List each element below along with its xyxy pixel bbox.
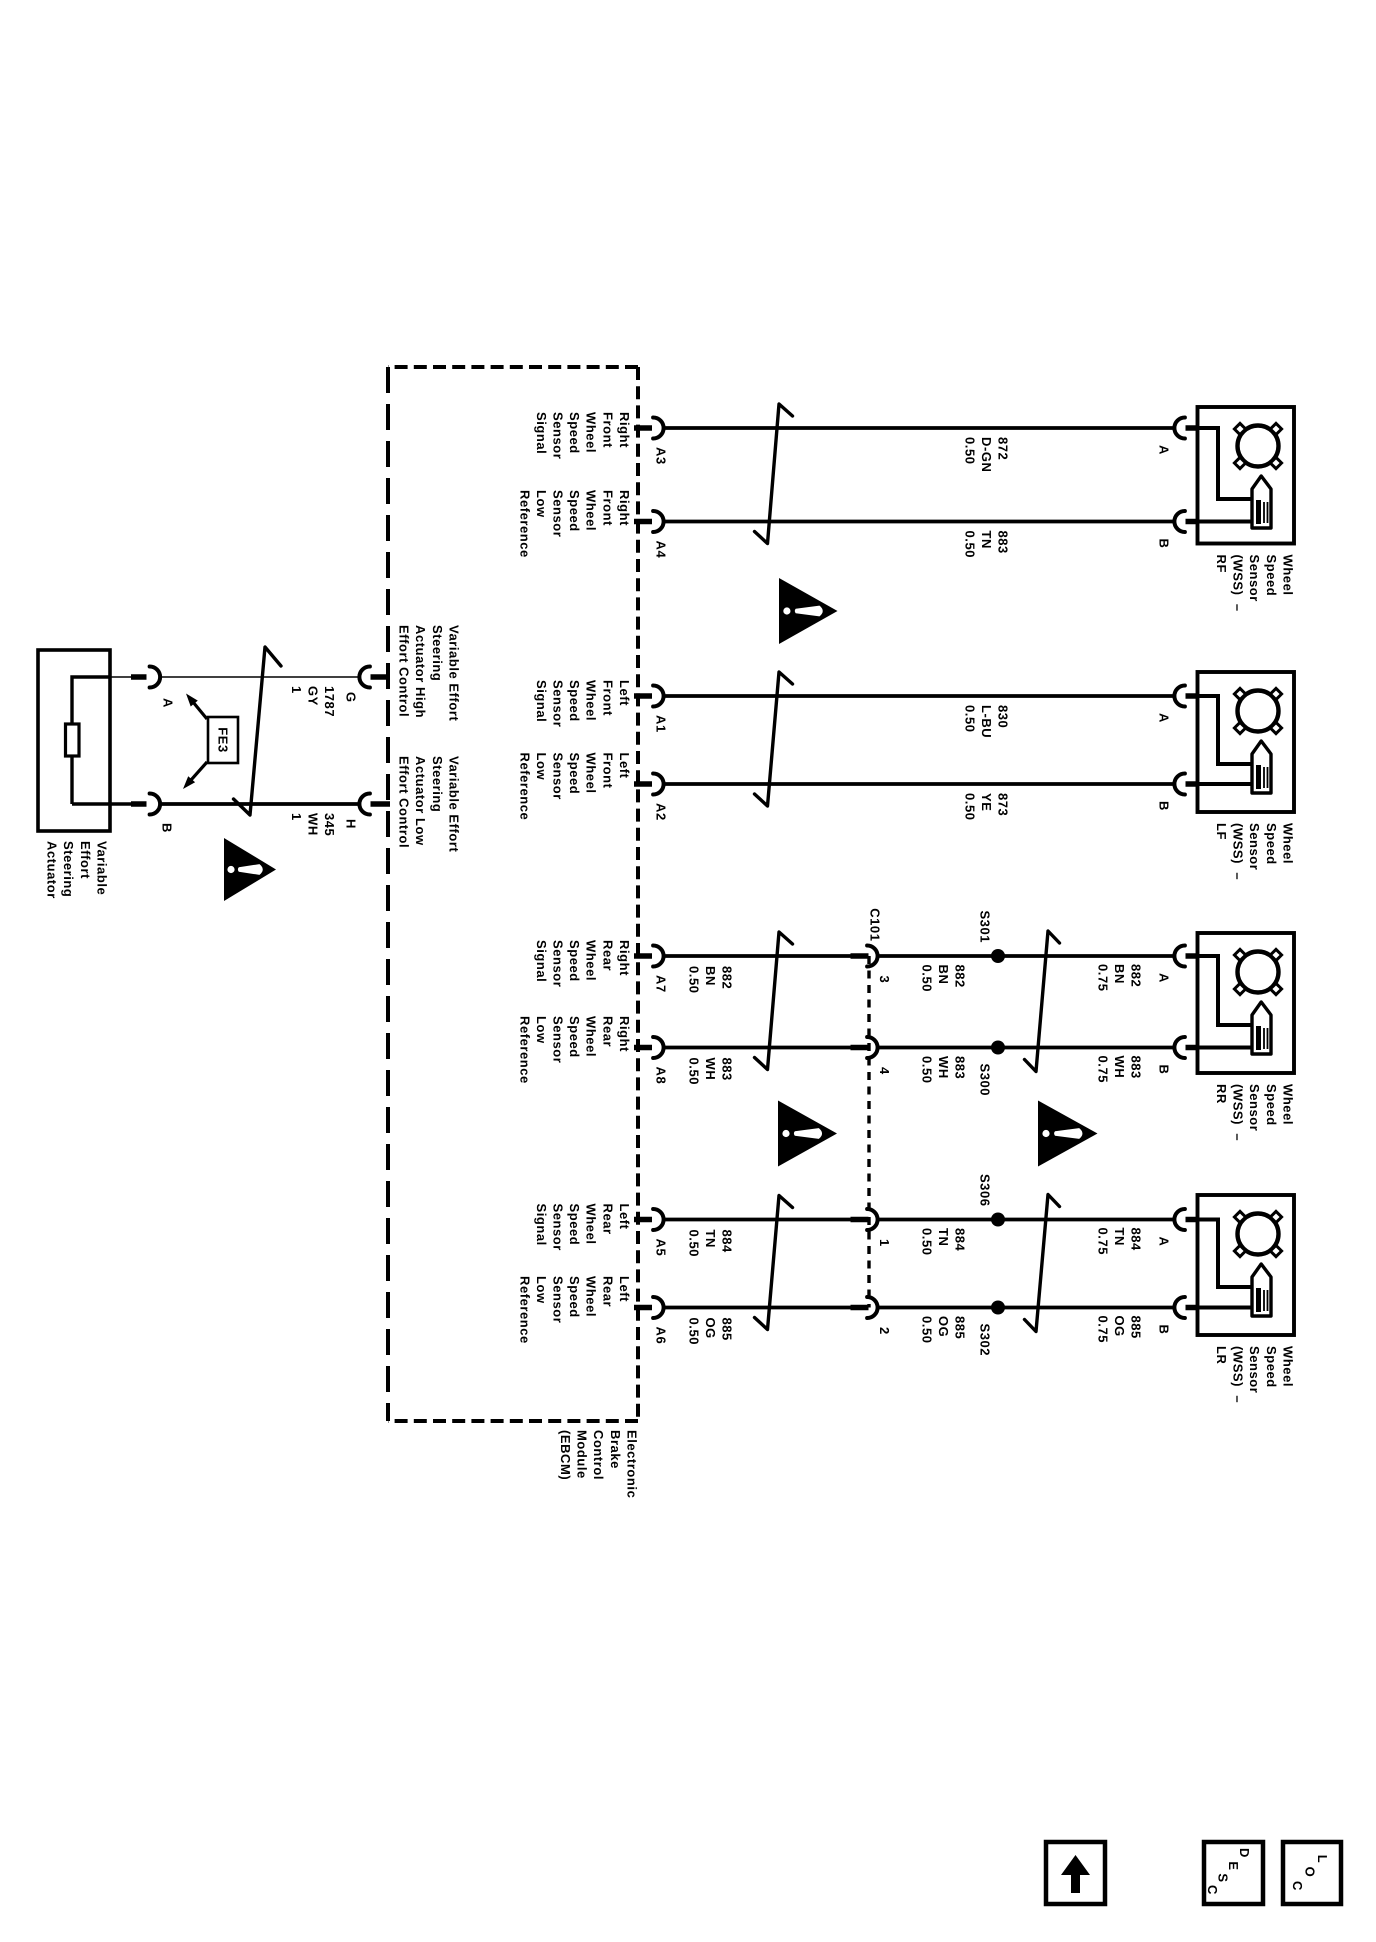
svg-text:Actuator High: Actuator High <box>413 625 428 718</box>
svg-text:RF: RF <box>1214 555 1229 573</box>
svg-text:0.75: 0.75 <box>1095 1056 1110 1084</box>
svg-text:Sensor: Sensor <box>551 490 566 537</box>
svg-text:Steering: Steering <box>61 841 76 897</box>
svg-text:Front: Front <box>600 680 615 716</box>
svg-text:1: 1 <box>289 813 304 821</box>
sensor pin A (LF) <box>1174 686 1199 707</box>
svg-text:Sensor: Sensor <box>1247 823 1262 870</box>
svg-text:A1: A1 <box>654 715 669 733</box>
svg-text:0.50: 0.50 <box>919 1228 934 1256</box>
svg-text:Wheel: Wheel <box>584 1204 599 1245</box>
svg-text:FE3: FE3 <box>216 727 231 753</box>
svg-text:A4: A4 <box>654 541 669 559</box>
svg-text:GY: GY <box>305 686 320 706</box>
svg-text:A: A <box>1157 973 1172 983</box>
wire label 345 WH 1 <box>289 813 337 836</box>
connector C101 terminal pin 3 <box>851 946 878 967</box>
svg-text:0.75: 0.75 <box>1095 964 1110 992</box>
svg-text:Low: Low <box>534 1016 549 1044</box>
harness crossing symbol (actuator pair) <box>234 647 282 815</box>
svg-text:872: 872 <box>995 437 1010 460</box>
svg-text:A8: A8 <box>654 1067 669 1085</box>
svg-text:S302: S302 <box>978 1324 993 1357</box>
svg-text:0.50: 0.50 <box>962 793 977 821</box>
RF sensor probe icon <box>1252 476 1271 528</box>
wire label 883 TN 0.50 <box>962 531 1010 559</box>
svg-text:873: 873 <box>995 793 1010 816</box>
svg-text:882: 882 <box>1128 964 1143 987</box>
EBCM pin A3 <box>634 418 664 439</box>
label Wheel Speed Sensor (WSS) LF <box>1214 823 1295 880</box>
svg-text:Sensor: Sensor <box>551 1276 566 1323</box>
harness crossing symbol (RF pair) <box>755 404 793 544</box>
wire 884 TN lower segment (LR) <box>665 1218 852 1222</box>
svg-text:YE: YE <box>979 793 994 811</box>
svg-text:Reference: Reference <box>517 1276 532 1344</box>
svg-text:0.50: 0.50 <box>962 705 977 733</box>
svg-text:Sensor: Sensor <box>551 412 566 459</box>
svg-text:Rear: Rear <box>600 1276 615 1307</box>
wire 883 WH lower segment (RR) <box>665 1046 852 1050</box>
label Wheel Speed Sensor (WSS) LR <box>1214 1346 1295 1403</box>
wire 882 BN upper segment (RR) <box>879 954 1174 958</box>
svg-text:Signal: Signal <box>534 1204 549 1246</box>
EBCM module dashed outline <box>388 367 638 1421</box>
wire label 883 WH 0.50 (middle) <box>919 1056 967 1084</box>
svg-text:B: B <box>160 823 175 833</box>
svg-text:D: D <box>1237 1848 1252 1858</box>
svg-text:Sensor: Sensor <box>551 753 566 800</box>
variable effort steering actuator box <box>38 650 110 831</box>
wire 882 BN lower segment (RR) <box>665 954 852 958</box>
svg-text:Wheel: Wheel <box>584 940 599 981</box>
LF internal wiring <box>1199 696 1252 764</box>
svg-text:883: 883 <box>952 1056 967 1079</box>
svg-text:830: 830 <box>995 705 1010 728</box>
label Wheel Speed Sensor (WSS) RF <box>1214 555 1295 612</box>
svg-text:A2: A2 <box>654 803 669 821</box>
svg-text:Speed: Speed <box>567 490 582 532</box>
svg-text:H: H <box>344 819 359 829</box>
svg-text:S301: S301 <box>978 910 993 943</box>
svg-text:Speed: Speed <box>567 1276 582 1318</box>
svg-text:Speed: Speed <box>567 1016 582 1058</box>
svg-text:A5: A5 <box>654 1239 669 1257</box>
svg-text:A3: A3 <box>654 447 669 465</box>
svg-text:Speed: Speed <box>567 680 582 722</box>
svg-text:WH: WH <box>936 1056 951 1079</box>
connector C101 dashed line <box>867 956 870 1308</box>
svg-text:Variable: Variable <box>94 841 109 895</box>
svg-text:Front: Front <box>600 753 615 789</box>
svg-text:Sensor: Sensor <box>551 680 566 727</box>
svg-text:0.50: 0.50 <box>962 531 977 559</box>
LOC icon <box>1283 1842 1341 1904</box>
wire 883 TN (low RF) <box>665 520 1174 524</box>
wire 885 OG lower segment (LR) <box>665 1306 852 1310</box>
actuator name label <box>45 841 110 899</box>
wire label 873 YE 0.50 <box>962 793 1010 821</box>
svg-text:(WSS) –: (WSS) – <box>1231 1084 1246 1141</box>
svg-text:OG: OG <box>703 1318 718 1339</box>
wire 1787 GY (G) <box>162 676 360 678</box>
actuator internal wiring <box>72 677 110 804</box>
svg-text:885: 885 <box>952 1316 967 1339</box>
wire 830 L-BU (sig LF) <box>665 694 1174 698</box>
EBCM module name label <box>558 1430 639 1498</box>
svg-text:0.50: 0.50 <box>919 1056 934 1084</box>
svg-text:BN: BN <box>703 966 718 986</box>
EBCM pin A8 <box>634 1037 664 1058</box>
svg-text:885: 885 <box>719 1318 734 1341</box>
wire 883 WH upper segment (RR) <box>879 1046 1174 1050</box>
harness crossing symbol (LR pair) <box>755 1196 793 1330</box>
sensor pin B (RF) <box>1174 511 1199 532</box>
svg-text:Brake: Brake <box>608 1430 623 1469</box>
svg-text:TN: TN <box>979 531 994 549</box>
svg-text:345: 345 <box>322 813 337 836</box>
svg-text:Wheel: Wheel <box>1280 1084 1295 1125</box>
svg-text:WH: WH <box>703 1058 718 1081</box>
warning triangle note (actuator) <box>224 838 276 901</box>
EBCM function text A4 <box>517 490 632 558</box>
svg-text:3: 3 <box>877 976 892 984</box>
svg-text:Rear: Rear <box>600 940 615 971</box>
svg-text:Signal: Signal <box>534 940 549 982</box>
sensor pin B (LR) <box>1174 1297 1199 1318</box>
svg-text:B: B <box>1157 801 1172 811</box>
warning triangle note (rear sensors lower) <box>778 1101 837 1167</box>
svg-text:Speed: Speed <box>1264 1084 1279 1126</box>
wire label 884 TN 0.50 (middle) <box>919 1228 967 1256</box>
EBCM function text A2 <box>517 753 632 821</box>
svg-text:Sensor: Sensor <box>1247 1346 1262 1393</box>
EBCM function text G <box>397 625 462 722</box>
svg-text:0.50: 0.50 <box>686 1058 701 1086</box>
svg-text:Wheel: Wheel <box>1280 1346 1295 1387</box>
svg-text:0.50: 0.50 <box>919 965 934 993</box>
EBCM function text A8 <box>517 1016 632 1084</box>
EBCM pin G <box>359 667 390 688</box>
svg-text:Steering: Steering <box>430 625 445 681</box>
harness crossing symbol (LR pair upper) <box>1025 1195 1060 1332</box>
svg-text:0.75: 0.75 <box>1095 1316 1110 1344</box>
wire 884 TN upper segment (LR) <box>879 1218 1174 1222</box>
svg-text:LR: LR <box>1214 1346 1229 1364</box>
svg-text:(WSS) –: (WSS) – <box>1231 823 1246 880</box>
svg-text:D-GN: D-GN <box>979 437 994 472</box>
EBCM pin A2 <box>634 774 664 795</box>
svg-text:883: 883 <box>719 1058 734 1081</box>
svg-text:Speed: Speed <box>1264 1346 1279 1388</box>
harness crossing symbol (RR pair upper) <box>1025 931 1060 1072</box>
sensor pin A (RF) <box>1174 418 1199 439</box>
svg-text:0.50: 0.50 <box>686 1230 701 1258</box>
svg-text:883: 883 <box>995 531 1010 554</box>
LR wheel hub icon <box>1234 1211 1281 1256</box>
EBCM function text A7 <box>534 940 632 987</box>
actuator pin terminal at wire H <box>110 794 160 815</box>
svg-text:LF: LF <box>1214 823 1229 840</box>
svg-text:(WSS) –: (WSS) – <box>1231 1346 1246 1403</box>
svg-text:Electronic: Electronic <box>624 1430 639 1498</box>
warning triangle note (front sensors) <box>779 578 838 644</box>
svg-text:Right: Right <box>617 940 632 976</box>
wire label 883 WH 0.75 (upper) <box>1095 1056 1143 1084</box>
svg-text:A: A <box>1157 445 1172 455</box>
svg-text:RR: RR <box>1214 1084 1229 1104</box>
svg-text:Actuator Low: Actuator Low <box>413 756 428 846</box>
svg-text:Signal: Signal <box>534 412 549 454</box>
svg-text:Actuator: Actuator <box>45 841 60 899</box>
svg-text:TN: TN <box>703 1230 718 1248</box>
svg-text:TN: TN <box>1112 1228 1127 1246</box>
svg-text:A: A <box>161 698 176 708</box>
label Wheel Speed Sensor (WSS) RR <box>1214 1084 1295 1141</box>
wheel speed sensor LR box <box>1198 1195 1295 1335</box>
wire 345 WH (H) <box>162 802 360 806</box>
svg-text:0.75: 0.75 <box>1095 1228 1110 1256</box>
svg-text:WH: WH <box>305 813 320 836</box>
svg-text:Speed: Speed <box>567 753 582 795</box>
svg-text:Low: Low <box>534 490 549 518</box>
sensor pin A (LR) <box>1174 1209 1199 1230</box>
svg-text:Speed: Speed <box>1264 823 1279 865</box>
svg-text:A: A <box>1157 713 1172 723</box>
svg-text:Effort Control: Effort Control <box>397 625 412 717</box>
svg-text:0.50: 0.50 <box>962 437 977 465</box>
wire label 884 TN 0.50 (lower) <box>686 1230 734 1258</box>
splice S302 <box>991 1301 1005 1315</box>
splice S306 <box>991 1213 1005 1227</box>
EBCM pin A7 <box>634 946 664 967</box>
wire label 882 BN 0.50 (lower) <box>686 966 734 994</box>
svg-text:B: B <box>1157 539 1172 549</box>
svg-text:Speed: Speed <box>567 412 582 454</box>
wire label 884 TN 0.75 (upper) <box>1095 1228 1143 1256</box>
svg-text:Reference: Reference <box>517 1016 532 1084</box>
svg-text:OG: OG <box>1112 1316 1127 1337</box>
svg-text:1787: 1787 <box>322 686 337 717</box>
svg-text:0.50: 0.50 <box>919 1316 934 1344</box>
svg-text:Wheel: Wheel <box>584 1016 599 1057</box>
svg-text:S300: S300 <box>978 1064 993 1097</box>
wire 885 OG upper segment (LR) <box>879 1306 1174 1310</box>
svg-text:Signal: Signal <box>534 680 549 722</box>
svg-text:Wheel: Wheel <box>584 753 599 794</box>
svg-text:Effort: Effort <box>78 841 93 879</box>
svg-text:Right: Right <box>617 412 632 448</box>
svg-text:L-BU: L-BU <box>979 705 994 738</box>
svg-text:O: O <box>1303 1867 1318 1878</box>
RR internal wiring <box>1199 956 1252 1025</box>
wire label 882 BN 0.50 (middle) <box>919 965 967 993</box>
svg-text:Left: Left <box>617 680 632 706</box>
connector C101 terminal pin 2 <box>851 1297 878 1318</box>
LF sensor probe icon <box>1252 741 1271 793</box>
svg-text:Variable Effort: Variable Effort <box>446 756 461 853</box>
wheel speed sensor RR box <box>1198 933 1295 1073</box>
wire label 872 D-GN 0.50 <box>962 437 1010 472</box>
EBCM function text A3 <box>534 412 632 459</box>
svg-text:(WSS) –: (WSS) – <box>1231 555 1246 612</box>
actuator pin terminal at wire G <box>110 667 160 688</box>
svg-text:C: C <box>1205 1885 1220 1895</box>
wire label 882 BN 0.75 (upper) <box>1095 964 1143 992</box>
DESC icon <box>1204 1842 1263 1904</box>
connector C101 terminal pin 1 <box>851 1209 878 1230</box>
wire label 830 L-BU 0.50 <box>962 705 1010 738</box>
svg-text:Speed: Speed <box>567 940 582 982</box>
svg-text:Sensor: Sensor <box>551 1016 566 1063</box>
svg-text:Wheel: Wheel <box>1280 555 1295 596</box>
svg-text:Right: Right <box>617 490 632 526</box>
svg-text:Left: Left <box>617 1276 632 1302</box>
wheel speed sensor RF box <box>1198 407 1295 544</box>
svg-text:2: 2 <box>877 1327 892 1335</box>
svg-text:Module: Module <box>575 1430 590 1479</box>
FE3 arrow to wire G <box>186 694 207 720</box>
warning triangle note (rear sensors upper) <box>1038 1101 1098 1167</box>
svg-text:Rear: Rear <box>600 1204 615 1235</box>
svg-text:OG: OG <box>936 1316 951 1337</box>
EBCM function text H <box>397 756 462 853</box>
svg-text:0.50: 0.50 <box>686 966 701 994</box>
svg-text:Sensor: Sensor <box>551 1204 566 1251</box>
svg-text:Variable Effort: Variable Effort <box>446 625 461 722</box>
wire label 1787 GY 1 <box>289 686 337 717</box>
svg-text:Speed: Speed <box>567 1204 582 1246</box>
RF wheel hub icon <box>1234 423 1281 468</box>
splice S300 <box>991 1041 1005 1055</box>
svg-text:L: L <box>1315 1855 1330 1864</box>
actuator internal element <box>66 724 80 756</box>
EBCM pin A6 <box>634 1297 664 1318</box>
FE3 option box <box>208 717 238 763</box>
EBCM function text A6 <box>517 1276 632 1344</box>
EBCM pin A5 <box>634 1209 664 1230</box>
svg-text:882: 882 <box>719 966 734 989</box>
svg-text:Steering: Steering <box>430 756 445 812</box>
svg-text:Right: Right <box>617 1016 632 1052</box>
svg-text:Wheel: Wheel <box>1280 823 1295 864</box>
svg-text:Wheel: Wheel <box>584 1276 599 1317</box>
svg-text:884: 884 <box>719 1230 734 1254</box>
LR sensor probe icon <box>1252 1264 1271 1316</box>
connector C101 terminal pin 4 <box>851 1037 878 1058</box>
wire label 885 OG 0.75 (upper) <box>1095 1316 1143 1344</box>
svg-text:Low: Low <box>534 1276 549 1304</box>
svg-text:Control: Control <box>591 1430 606 1480</box>
svg-text:B: B <box>1157 1065 1172 1075</box>
svg-text:Reference: Reference <box>517 753 532 821</box>
svg-text:Wheel: Wheel <box>584 412 599 453</box>
svg-text:C: C <box>1290 1881 1305 1891</box>
svg-text:Reference: Reference <box>517 490 532 558</box>
wire label 885 OG 0.50 (middle) <box>919 1316 967 1344</box>
svg-text:S306: S306 <box>978 1174 993 1207</box>
svg-text:WH: WH <box>1112 1056 1127 1079</box>
LR internal wiring <box>1199 1220 1252 1288</box>
svg-text:882: 882 <box>952 965 967 988</box>
svg-text:Wheel: Wheel <box>584 490 599 531</box>
EBCM pin A1 <box>634 686 664 707</box>
harness crossing symbol (RR pair) <box>755 932 793 1070</box>
wheel speed sensor LF box <box>1198 672 1295 812</box>
svg-text:Left: Left <box>617 1204 632 1230</box>
sensor pin B (LF) <box>1174 774 1199 795</box>
svg-text:Wheel: Wheel <box>584 680 599 721</box>
svg-text:0.50: 0.50 <box>686 1318 701 1346</box>
FE3 arrow to wire H <box>183 762 207 789</box>
svg-text:C101: C101 <box>868 908 883 941</box>
EBCM function text A1 <box>534 680 632 727</box>
svg-text:TN: TN <box>936 1228 951 1246</box>
svg-text:Front: Front <box>600 412 615 448</box>
EBCM function text A5 <box>534 1204 632 1251</box>
sensor pin B (RR) <box>1174 1037 1199 1058</box>
svg-text:G: G <box>344 692 359 703</box>
svg-text:Rear: Rear <box>600 1016 615 1047</box>
svg-text:BN: BN <box>936 965 951 985</box>
RR sensor probe icon <box>1252 1002 1271 1054</box>
svg-text:Effort Control: Effort Control <box>397 756 412 848</box>
wire label 885 OG 0.50 (lower) <box>686 1318 734 1346</box>
svg-text:884: 884 <box>952 1228 967 1252</box>
EBCM pin H <box>359 794 390 815</box>
svg-text:884: 884 <box>1128 1228 1143 1252</box>
LF wheel hub icon <box>1234 688 1281 733</box>
svg-text:Sensor: Sensor <box>1247 1084 1262 1131</box>
navigation arrow icon <box>1046 1842 1105 1904</box>
svg-text:Left: Left <box>617 753 632 779</box>
RR wheel hub icon <box>1234 949 1281 994</box>
svg-text:BN: BN <box>1112 964 1127 984</box>
svg-text:885: 885 <box>1128 1316 1143 1339</box>
splice S301 <box>991 949 1005 963</box>
svg-text:A6: A6 <box>654 1327 669 1345</box>
svg-text:883: 883 <box>1128 1056 1143 1079</box>
wire label 883 WH 0.50 (lower) <box>686 1058 734 1086</box>
svg-text:S: S <box>1216 1873 1231 1882</box>
wire 873 YE (low LF) <box>665 782 1174 786</box>
svg-text:A: A <box>1157 1237 1172 1247</box>
svg-text:Sensor: Sensor <box>1247 555 1262 602</box>
svg-text:Low: Low <box>534 753 549 781</box>
svg-text:1: 1 <box>877 1239 892 1247</box>
svg-text:Speed: Speed <box>1264 555 1279 597</box>
svg-text:A7: A7 <box>654 975 669 993</box>
svg-text:E: E <box>1226 1861 1241 1870</box>
svg-text:(EBCM): (EBCM) <box>558 1430 573 1480</box>
svg-text:1: 1 <box>289 686 304 694</box>
RF internal wiring <box>1199 428 1252 499</box>
wire 872 D-GN (sig RF) <box>665 426 1174 430</box>
svg-text:B: B <box>1157 1325 1172 1335</box>
svg-text:4: 4 <box>877 1067 892 1075</box>
harness crossing symbol (LF pair) <box>755 672 793 806</box>
svg-text:Sensor: Sensor <box>551 940 566 987</box>
sensor pin A (RR) <box>1174 946 1199 967</box>
svg-text:Front: Front <box>600 490 615 526</box>
EBCM pin A4 <box>634 511 664 532</box>
